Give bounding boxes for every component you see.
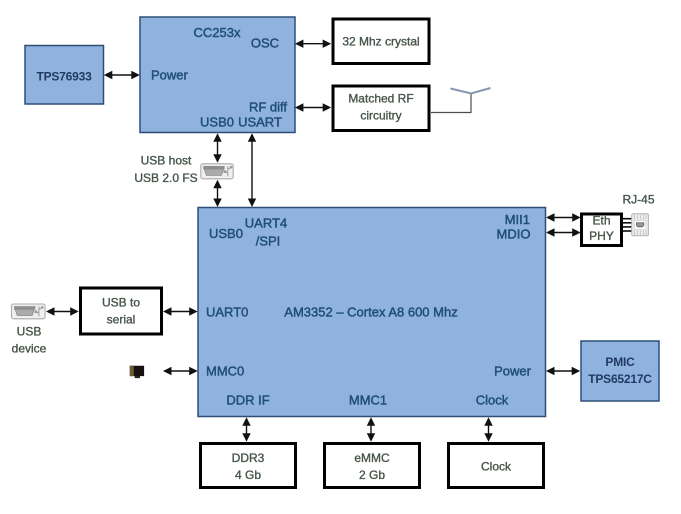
svg-text:MII1: MII1 — [505, 212, 530, 227]
svg-text:PMIC: PMIC — [605, 355, 635, 369]
wire antenna feed — [431, 93, 471, 113]
svg-text:UART4: UART4 — [245, 216, 287, 231]
svg-text:USB host: USB host — [141, 154, 192, 168]
svg-text:2 Gb: 2 Gb — [359, 468, 385, 482]
RJ-45 connector icon — [632, 214, 649, 236]
svg-text:USB to: USB to — [102, 296, 140, 310]
svg-text:UART0: UART0 — [206, 305, 248, 320]
arrow Power to PMIC — [546, 367, 580, 375]
arrow OSC to 32 Mhz crystal — [295, 40, 331, 48]
svg-text:TPS76933: TPS76933 — [36, 70, 92, 84]
svg-text:OSC: OSC — [251, 36, 279, 51]
svg-text:32 Mhz crystal: 32 Mhz crystal — [342, 35, 419, 49]
svg-text:USART: USART — [238, 115, 282, 130]
arrow TPS76933 to Power — [104, 71, 140, 79]
svg-text:Power: Power — [151, 68, 189, 83]
svg-text:DDR3: DDR3 — [232, 451, 265, 465]
svg-text:DDR IF: DDR IF — [226, 393, 269, 408]
arrow MDIO to Eth PHY — [546, 228, 581, 236]
arrow MII1 to Eth PHY — [546, 213, 581, 221]
svg-text:serial: serial — [107, 313, 136, 327]
svg-text:MMC0: MMC0 — [206, 364, 244, 379]
block 32 Mhz crystal — [333, 19, 429, 64]
arrow RF diff to Matched RF circuitry — [295, 103, 331, 111]
USB device connector icon — [12, 304, 46, 319]
svg-text:CC253x: CC253x — [194, 25, 241, 40]
arrow USB to serial to UART0 — [163, 307, 198, 315]
block PMIC TPS65217C — [581, 341, 659, 401]
block eMMC 2 Gb — [325, 444, 420, 488]
svg-text:TPS65217C: TPS65217C — [588, 372, 652, 386]
svg-text:Power: Power — [494, 364, 532, 379]
block USB to serial — [81, 288, 162, 334]
microSD card icon — [130, 366, 144, 378]
svg-text:device: device — [12, 342, 47, 356]
block DDR3 4 Gb — [201, 444, 296, 488]
block CC253x — [140, 17, 295, 133]
arrow CC253x USART to AM3352 UART4 — [248, 133, 256, 207]
svg-text:eMMC: eMMC — [354, 451, 390, 465]
wire Eth PHY pins to RJ-45 — [623, 219, 632, 231]
svg-text:RF diff: RF diff — [249, 100, 287, 115]
arrow USB host connector to AM3352 USB0 — [213, 180, 221, 207]
svg-text:Matched RF: Matched RF — [348, 92, 413, 106]
svg-text:Clock: Clock — [481, 460, 512, 474]
block Eth PHY — [582, 214, 622, 246]
label USB device — [12, 325, 47, 356]
arrow DDR IF to DDR3 — [242, 417, 250, 441]
svg-text:PHY: PHY — [589, 229, 614, 243]
arrow microSD to MMC0 — [163, 367, 198, 375]
svg-text:MMC1: MMC1 — [349, 393, 387, 408]
svg-text:USB0: USB0 — [200, 115, 234, 130]
arrow USB device to USB to serial — [46, 307, 79, 315]
arrow MMC1 to eMMC — [367, 417, 375, 441]
block Clock — [449, 444, 544, 488]
svg-text:MDIO: MDIO — [497, 227, 531, 242]
svg-text:Eth: Eth — [592, 214, 610, 228]
USB host connector icon — [201, 164, 233, 179]
svg-text:USB0: USB0 — [209, 226, 243, 241]
svg-text:circuitry: circuitry — [360, 109, 401, 123]
block Matched RF circuitry — [333, 86, 429, 131]
svg-text:4 Gb: 4 Gb — [235, 468, 261, 482]
block TPS76933 — [25, 46, 104, 105]
svg-text:/SPI: /SPI — [256, 234, 281, 249]
svg-text:USB: USB — [17, 325, 42, 339]
svg-text:Clock: Clock — [476, 393, 509, 408]
antenna — [451, 88, 491, 94]
block AM3352 — [198, 208, 546, 417]
arrow CC253x USB0 to USB host connector — [213, 133, 221, 162]
arrow Clock to Clock box — [484, 417, 492, 441]
svg-text:RJ-45: RJ-45 — [622, 193, 654, 207]
svg-text:AM3352 – Cortex A8 600 Mhz: AM3352 – Cortex A8 600 Mhz — [284, 305, 457, 320]
svg-text:USB 2.0 FS: USB 2.0 FS — [134, 171, 197, 185]
